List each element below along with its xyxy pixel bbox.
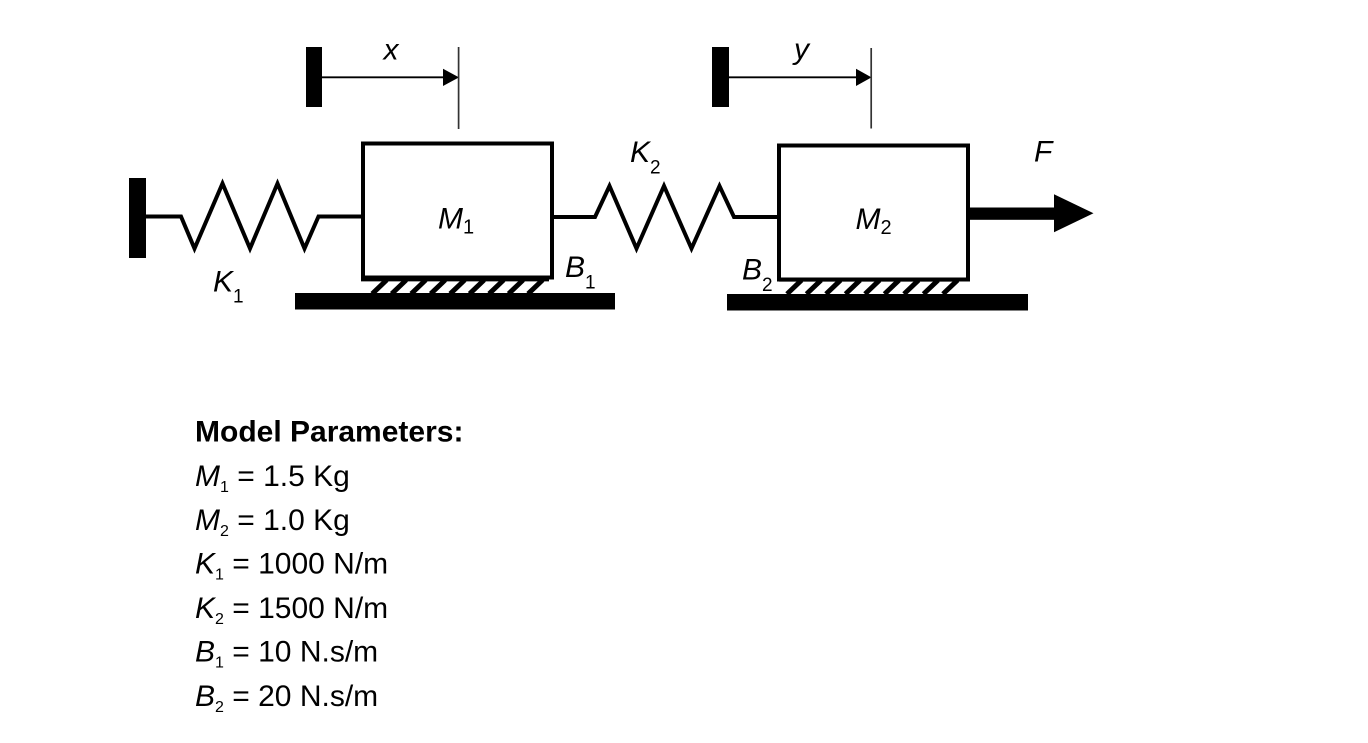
mass M2 box [779, 146, 968, 280]
svg-text:M1 = 1.5 Kg: M1 = 1.5 Kg [195, 460, 350, 496]
damper friction hatch B1 [361, 280, 549, 294]
x centerline mark [458, 47, 460, 129]
spring K2 [554, 186, 777, 249]
svg-text:F: F [1034, 136, 1054, 169]
svg-text:M2 = 1.0 Kg: M2 = 1.0 Kg [195, 504, 350, 540]
ground bar 2 [727, 294, 1028, 311]
fixed wall left [129, 178, 146, 258]
x reference wall [306, 47, 322, 107]
svg-text:Model Parameters:: Model Parameters: [195, 416, 463, 449]
y centerline mark [870, 48, 872, 129]
damper friction hatch B2 [779, 280, 959, 294]
x displacement arrow [322, 76, 445, 78]
spring K1 [146, 184, 361, 249]
svg-text:y: y [792, 33, 811, 66]
svg-text:K2 = 1500 N/m: K2 = 1500 N/m [195, 592, 388, 628]
y reference wall [712, 47, 729, 107]
svg-text:x: x [382, 34, 400, 67]
ground bar 1 [295, 293, 615, 310]
mass M1 box [363, 144, 552, 278]
y displacement arrow [729, 76, 858, 78]
svg-text:K1 = 1000 N/m: K1 = 1000 N/m [195, 548, 388, 584]
force F arrow [970, 208, 1054, 220]
